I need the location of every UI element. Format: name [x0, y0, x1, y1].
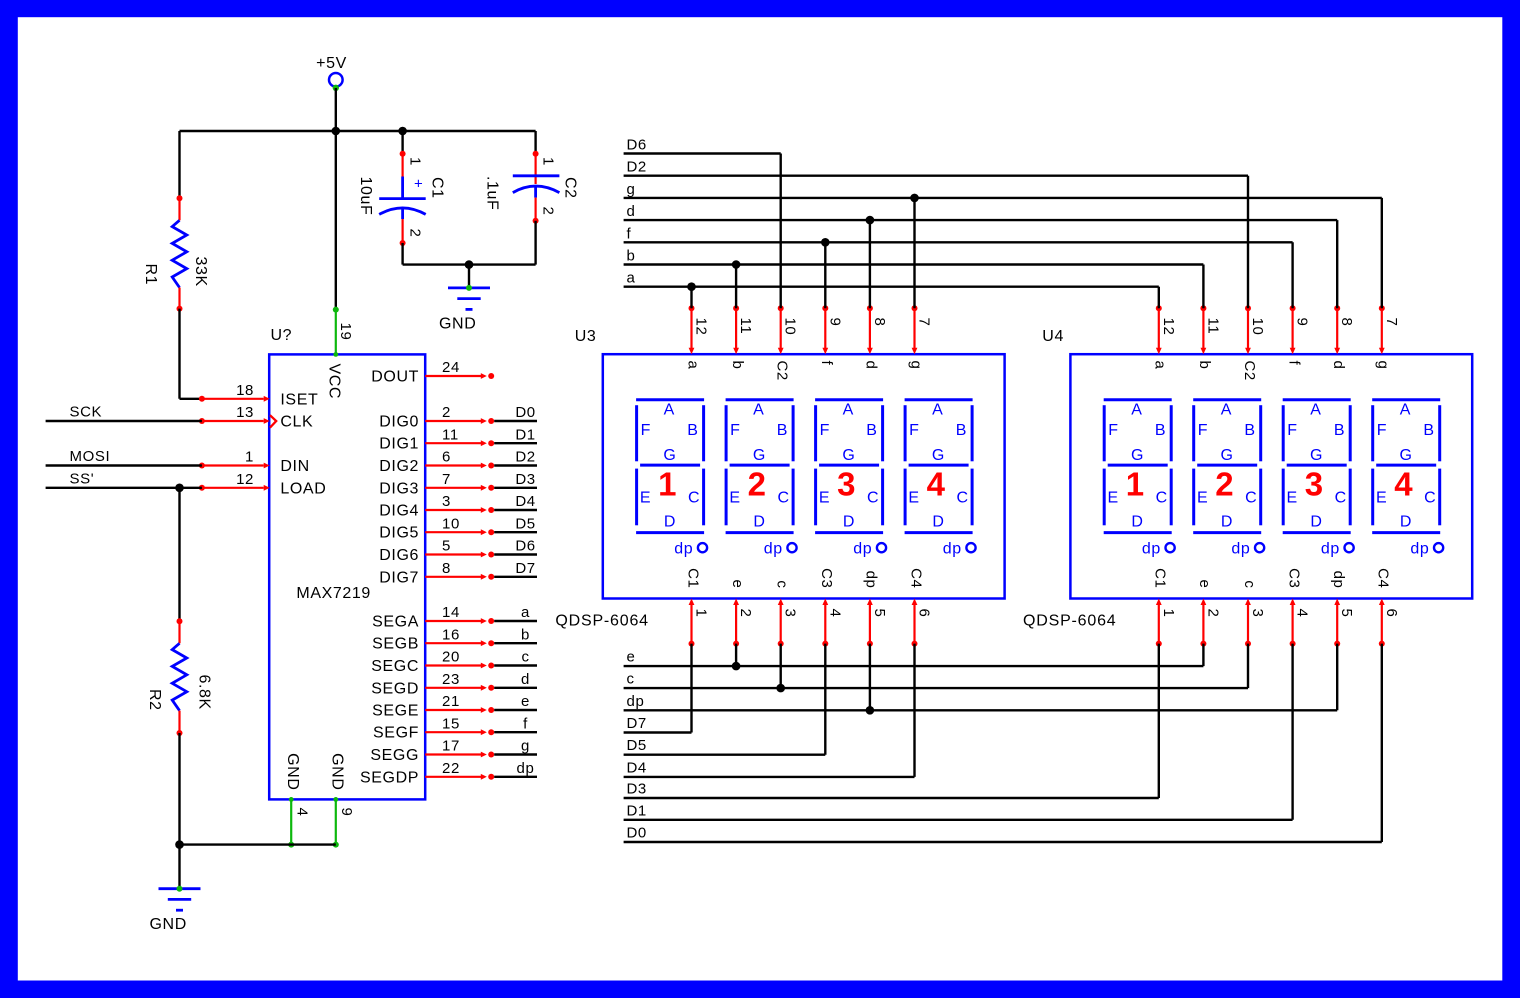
label U?	[271, 327, 293, 344]
svg-text:U4: U4	[1042, 328, 1064, 345]
label 33K	[192, 257, 209, 287]
net D0	[624, 825, 1382, 843]
svg-text:VCC: VCC	[326, 364, 343, 400]
svg-text:1: 1	[407, 157, 424, 166]
net c	[624, 671, 1248, 689]
wire +5V to rail	[335, 88, 337, 131]
display U4 QDSP-6064 body	[1070, 354, 1472, 598]
svg-text:C2: C2	[1241, 361, 1258, 381]
svg-text:6: 6	[1383, 609, 1400, 618]
U? pin 5 DIG6	[379, 538, 494, 564]
svg-text:D: D	[1131, 513, 1143, 530]
svg-text:b: b	[729, 361, 746, 370]
svg-text:15: 15	[442, 715, 460, 732]
svg-text:dp: dp	[674, 540, 693, 557]
svg-text:f: f	[627, 225, 632, 242]
net stub g	[494, 738, 537, 755]
svg-text:4: 4	[1394, 466, 1413, 503]
svg-text:5: 5	[1338, 609, 1355, 618]
svg-text:G: G	[753, 447, 766, 464]
label C2	[562, 177, 579, 199]
junction	[687, 282, 696, 291]
junction	[732, 260, 741, 269]
svg-text:6: 6	[442, 449, 451, 466]
svg-text:13: 13	[236, 404, 254, 421]
svg-text:D: D	[932, 513, 944, 530]
svg-text:C: C	[1156, 489, 1168, 506]
net D2	[624, 159, 1248, 176]
svg-text:dp: dp	[863, 571, 880, 589]
svg-text:DIN: DIN	[280, 458, 309, 475]
wire to U4 top pin	[1291, 242, 1293, 308]
U3 pin 3 (c) bottom stub	[774, 580, 799, 646]
svg-text:A: A	[1400, 402, 1411, 419]
resistor R2	[172, 618, 187, 736]
svg-text:D: D	[1221, 513, 1233, 530]
display U3 QDSP-6064 body	[603, 354, 1005, 598]
svg-text:SEGA: SEGA	[372, 614, 419, 631]
svg-text:8: 8	[1338, 318, 1355, 327]
svg-text:4: 4	[826, 609, 843, 618]
wire to U4 top pin	[1247, 176, 1249, 309]
junction rail/VCC	[332, 127, 341, 136]
label 6.8K	[196, 675, 213, 710]
svg-text:d: d	[521, 671, 530, 688]
U3 digit 4 seven-segment	[905, 400, 976, 558]
U3 pin 12 (a) top stub	[684, 305, 709, 369]
svg-text:E: E	[1197, 489, 1208, 506]
svg-text:e: e	[1196, 580, 1213, 589]
svg-text:b: b	[521, 626, 530, 643]
svg-text:D7: D7	[515, 560, 535, 577]
svg-text:1: 1	[540, 157, 557, 166]
U? pin 14 SEGA	[372, 604, 494, 630]
wire to U3 top pin	[913, 198, 915, 308]
U4 pin 6 (C4) bottom stub	[1375, 568, 1400, 646]
svg-text:a: a	[684, 361, 701, 370]
svg-text:GND: GND	[284, 753, 301, 790]
svg-text:B: B	[956, 422, 967, 439]
svg-text:21: 21	[442, 693, 460, 710]
svg-text:DIG7: DIG7	[379, 569, 419, 586]
U? pin 1 DIN	[199, 449, 310, 475]
svg-text:dp: dp	[1142, 540, 1161, 557]
label C1 pin 2	[407, 229, 424, 238]
U4 pin 2 (e) bottom stub	[1196, 580, 1221, 647]
junction rail/C1	[398, 127, 407, 136]
label C2 pin 1	[540, 157, 557, 166]
wire to U3 top pin	[690, 287, 692, 309]
wire from U4 bottom pin	[1158, 644, 1160, 798]
capacitor C2	[513, 151, 560, 224]
net stub D3	[494, 471, 537, 488]
net d	[624, 203, 1338, 220]
svg-text:dp: dp	[1330, 571, 1347, 589]
svg-text:DOUT: DOUT	[371, 369, 419, 386]
svg-text:a: a	[521, 604, 530, 621]
svg-text:1: 1	[1126, 466, 1145, 503]
svg-text:f: f	[1285, 361, 1302, 366]
svg-text:E: E	[1376, 489, 1387, 506]
svg-text:e: e	[521, 693, 530, 710]
svg-text:A: A	[1221, 402, 1232, 419]
svg-text:E: E	[1286, 489, 1297, 506]
wire to GND symbol	[468, 265, 470, 288]
U4 digit 2 seven-segment	[1193, 400, 1264, 558]
svg-text:1: 1	[1160, 609, 1177, 618]
label R2	[146, 689, 163, 711]
ground GND (R2)	[150, 886, 201, 934]
svg-text:E: E	[1107, 489, 1118, 506]
wire from U4 bottom pin	[1291, 644, 1293, 820]
svg-text:G: G	[932, 447, 945, 464]
svg-text:D1: D1	[515, 426, 535, 443]
svg-text:D4: D4	[515, 493, 535, 510]
U? pin 10 DIG5	[379, 515, 494, 541]
svg-text:16: 16	[442, 626, 460, 643]
svg-text:4: 4	[294, 808, 311, 817]
svg-text:D0: D0	[627, 825, 647, 842]
U3 pin 2 (e) bottom stub	[729, 580, 754, 647]
wire to U4 top pin	[1381, 198, 1383, 308]
net stub D6	[494, 538, 537, 555]
U? pin 21 SEGE	[372, 693, 494, 719]
svg-text:D: D	[843, 513, 855, 530]
svg-text:D: D	[664, 513, 676, 530]
svg-text:3: 3	[837, 466, 856, 503]
wire to U4 top pin	[1158, 287, 1160, 309]
svg-text:A: A	[664, 402, 675, 419]
svg-text:C: C	[867, 489, 879, 506]
wire from U4 bottom pin	[1336, 644, 1338, 711]
svg-text:dp: dp	[517, 760, 535, 777]
svg-text:G: G	[1131, 447, 1144, 464]
svg-text:D2: D2	[627, 159, 647, 176]
label C1 pin 1	[407, 157, 424, 166]
svg-text:C: C	[1335, 489, 1347, 506]
svg-text:SEGB: SEGB	[372, 636, 419, 653]
svg-text:3: 3	[782, 609, 799, 618]
U? pin 3 DIG4	[379, 493, 494, 519]
svg-text:C4: C4	[1375, 568, 1392, 588]
svg-text:CLK: CLK	[280, 414, 313, 431]
svg-text:.1uF: .1uF	[484, 176, 501, 210]
U4 pin 4 (C3) bottom stub	[1285, 568, 1310, 646]
wire to U4 top pin	[1336, 220, 1338, 308]
svg-text:19: 19	[337, 323, 354, 341]
net stub D2	[494, 449, 537, 466]
svg-text:e: e	[627, 649, 636, 666]
junction	[732, 662, 741, 671]
wire from U4 bottom pin	[1381, 644, 1383, 842]
U? pin 17 SEGG	[370, 738, 494, 764]
svg-text:6.8K: 6.8K	[196, 675, 213, 710]
wire to U3 top pin	[780, 154, 782, 309]
U? pin 11 DIG1	[379, 426, 494, 452]
U4 digit 4 seven-segment	[1372, 400, 1443, 558]
svg-text:2: 2	[737, 609, 754, 618]
U? pin 20 SEGC	[371, 649, 494, 675]
svg-text:2: 2	[1204, 609, 1221, 618]
svg-text:6: 6	[916, 609, 933, 618]
junction	[866, 216, 875, 225]
svg-text:F: F	[909, 422, 919, 439]
wire to U3 top pin	[735, 265, 737, 309]
svg-text:SEGDP: SEGDP	[360, 769, 419, 786]
U? pin 13 CLK	[199, 404, 313, 430]
svg-text:c: c	[774, 580, 791, 588]
svg-text:C4: C4	[907, 568, 924, 588]
U? pin 4 GND	[284, 753, 311, 847]
wire to U3 top pin	[869, 220, 871, 308]
svg-text:E: E	[908, 489, 919, 506]
wire rail to R1	[178, 131, 180, 198]
svg-text:9: 9	[1294, 318, 1311, 327]
net stub dp	[494, 760, 537, 777]
U4 digit 1 seven-segment	[1104, 400, 1175, 558]
net stub b	[494, 626, 537, 643]
net SCK	[46, 403, 202, 421]
svg-text:dp: dp	[1231, 540, 1250, 557]
U3 pin 10 (C2) top stub	[774, 305, 799, 381]
svg-text:C1: C1	[684, 568, 701, 588]
wire from U3 bottom pin	[690, 644, 692, 733]
svg-text:2: 2	[748, 466, 767, 503]
net dp	[624, 693, 1338, 711]
label 10uF	[357, 177, 374, 216]
U? pin 2 DIG0	[379, 404, 494, 430]
svg-text:DIG3: DIG3	[379, 480, 419, 497]
svg-text:DIG6: DIG6	[379, 547, 419, 564]
svg-text:3: 3	[442, 493, 451, 510]
IC U? MAX7219 body	[269, 354, 425, 799]
svg-text:F: F	[820, 422, 830, 439]
svg-text:9: 9	[338, 808, 355, 817]
net D4	[624, 759, 915, 777]
svg-text:7: 7	[1383, 318, 1400, 327]
svg-text:B: B	[1155, 422, 1166, 439]
svg-text:7: 7	[916, 318, 933, 327]
U? pin 8 DIG7	[379, 560, 494, 586]
svg-text:B: B	[1334, 422, 1345, 439]
svg-text:DIG2: DIG2	[379, 458, 419, 475]
svg-text:F: F	[730, 422, 740, 439]
svg-text:R1: R1	[142, 264, 159, 286]
U? pin 18 ISET	[199, 382, 318, 408]
U? pin 23 SEGD	[371, 671, 494, 697]
wire from U3 bottom pin	[913, 644, 915, 777]
svg-text:SEGC: SEGC	[371, 658, 419, 675]
svg-text:D6: D6	[515, 538, 535, 555]
svg-text:B: B	[687, 422, 698, 439]
svg-text:B: B	[1244, 422, 1255, 439]
wire ground bus to chip GND pins	[180, 843, 336, 845]
wire R1 to ISET	[180, 309, 202, 399]
U3 pin 5 (dp) bottom stub	[863, 571, 888, 647]
svg-text:D: D	[753, 513, 765, 530]
net b	[624, 248, 1204, 265]
svg-text:b: b	[627, 248, 636, 265]
wire rail to C2	[534, 131, 536, 154]
net D1	[624, 802, 1293, 820]
svg-text:dp: dp	[627, 693, 645, 710]
svg-text:1: 1	[658, 466, 677, 503]
label C1	[429, 177, 446, 199]
svg-text:12: 12	[693, 318, 710, 336]
svg-text:A: A	[932, 402, 943, 419]
svg-text:g: g	[1375, 361, 1392, 370]
svg-text:C2: C2	[774, 361, 791, 381]
svg-text:3: 3	[1305, 466, 1324, 503]
svg-text:10uF: 10uF	[357, 177, 374, 216]
U? pin 19 VCC	[326, 131, 354, 399]
svg-text:D3: D3	[515, 471, 535, 488]
svg-text:SEGD: SEGD	[371, 680, 419, 697]
net f	[624, 225, 1293, 242]
svg-text:A: A	[1131, 402, 1142, 419]
capacitor C1	[379, 151, 426, 246]
svg-text:E: E	[729, 489, 740, 506]
svg-text:11: 11	[1204, 318, 1221, 335]
label C2 pin 2	[540, 207, 557, 216]
wire to U4 top pin	[1202, 265, 1204, 309]
svg-text:R2: R2	[146, 689, 163, 711]
junction ground bus	[465, 260, 474, 269]
svg-text:G: G	[842, 447, 855, 464]
wire R2 to ground	[178, 733, 180, 845]
net g	[624, 181, 1382, 198]
label .1uF	[484, 176, 501, 210]
svg-text:c: c	[1241, 580, 1258, 588]
wire +5V rail	[180, 130, 536, 132]
svg-text:SEGE: SEGE	[372, 703, 419, 720]
svg-text:c: c	[521, 649, 529, 666]
svg-text:MOSI: MOSI	[70, 448, 111, 465]
svg-text:SEGF: SEGF	[373, 725, 419, 742]
U3 pin 9 (f) top stub	[818, 305, 843, 365]
net stub d	[494, 671, 537, 688]
net D7	[624, 715, 692, 733]
U4 pin 5 (dp) bottom stub	[1330, 571, 1355, 647]
svg-text:C1: C1	[1152, 568, 1169, 588]
U4 pin 8 (d) top stub	[1330, 305, 1355, 369]
svg-text:F: F	[1198, 422, 1208, 439]
svg-text:F: F	[1108, 422, 1118, 439]
svg-text:d: d	[627, 203, 636, 220]
svg-text:ISET: ISET	[280, 391, 318, 408]
svg-text:10: 10	[782, 318, 799, 336]
svg-text:A: A	[753, 402, 764, 419]
svg-text:dp: dp	[1410, 540, 1429, 557]
svg-text:D1: D1	[627, 802, 647, 819]
svg-text:G: G	[1310, 447, 1323, 464]
U? pin 22 SEGDP	[360, 760, 494, 786]
U3 digit 1 seven-segment	[636, 400, 707, 558]
U3 digit 2 seven-segment	[726, 400, 797, 558]
svg-text:dp: dp	[1321, 540, 1340, 557]
svg-text:D: D	[1310, 513, 1322, 530]
svg-text:D7: D7	[627, 715, 647, 732]
wire to U3 top pin	[824, 242, 826, 308]
svg-text:c: c	[627, 671, 635, 688]
U4 pin 12 (a) top stub	[1152, 305, 1177, 369]
U? pin 15 SEGF	[373, 715, 494, 741]
svg-text:U3: U3	[575, 328, 597, 345]
svg-text:5: 5	[442, 538, 451, 555]
U4 pin 9 (f) top stub	[1285, 305, 1310, 365]
svg-text:DIG5: DIG5	[379, 525, 419, 542]
svg-text:C3: C3	[1285, 568, 1302, 588]
U4 digit 3 seven-segment	[1283, 400, 1354, 558]
svg-text:a: a	[627, 270, 636, 287]
svg-text:D6: D6	[627, 137, 647, 154]
svg-text:2: 2	[1215, 466, 1234, 503]
U? pin 12 LOAD	[199, 471, 326, 497]
svg-text:QDSP-6064: QDSP-6064	[555, 612, 648, 629]
svg-text:F: F	[1377, 422, 1387, 439]
svg-text:D: D	[1400, 513, 1412, 530]
wire from U3 bottom pin	[869, 644, 871, 711]
svg-text:U?: U?	[271, 327, 293, 344]
svg-text:LOAD: LOAD	[280, 480, 326, 497]
net D5	[624, 737, 826, 755]
svg-text:A: A	[1310, 402, 1321, 419]
svg-text:dp: dp	[764, 540, 783, 557]
junction R2/GND bus	[175, 840, 184, 849]
svg-text:D0: D0	[515, 404, 535, 421]
svg-text:G: G	[1220, 447, 1233, 464]
svg-text:4: 4	[927, 466, 946, 503]
svg-text:g: g	[521, 738, 530, 755]
svg-text:20: 20	[442, 649, 460, 666]
net stub a	[494, 604, 537, 621]
svg-text:g: g	[627, 181, 636, 198]
U3 pin 7 (g) top stub	[907, 305, 932, 369]
svg-text:F: F	[1287, 422, 1297, 439]
svg-text:2: 2	[540, 207, 557, 216]
svg-text:QDSP-6064: QDSP-6064	[1023, 612, 1116, 629]
junction	[910, 194, 919, 203]
net stub c	[494, 649, 537, 666]
svg-text:f: f	[818, 361, 835, 366]
U4 pin 3 (c) bottom stub	[1241, 580, 1266, 646]
svg-text:2: 2	[442, 404, 451, 421]
svg-text:18: 18	[236, 382, 254, 399]
svg-text:17: 17	[442, 738, 460, 755]
svg-text:SS': SS'	[70, 470, 95, 487]
U3 pin 4 (C3) bottom stub	[818, 568, 843, 646]
U3 pin 6 (C4) bottom stub	[907, 568, 932, 646]
svg-text:MAX7219: MAX7219	[296, 585, 370, 602]
svg-text:D4: D4	[627, 759, 647, 776]
svg-text:B: B	[866, 422, 877, 439]
svg-text:D2: D2	[515, 449, 535, 466]
net e	[624, 649, 1204, 667]
svg-text:D5: D5	[627, 737, 647, 754]
net D3	[624, 781, 1159, 799]
svg-text:DIG0: DIG0	[379, 414, 419, 431]
svg-text:14: 14	[442, 604, 460, 621]
svg-text:G: G	[663, 447, 676, 464]
svg-text:C: C	[1424, 489, 1436, 506]
svg-text:4: 4	[1294, 609, 1311, 618]
label U3	[575, 328, 597, 345]
junction	[866, 706, 875, 715]
net stub D0	[494, 404, 537, 421]
net D6	[624, 137, 781, 154]
svg-text:SEGG: SEGG	[370, 747, 419, 764]
label U4	[1042, 328, 1064, 345]
